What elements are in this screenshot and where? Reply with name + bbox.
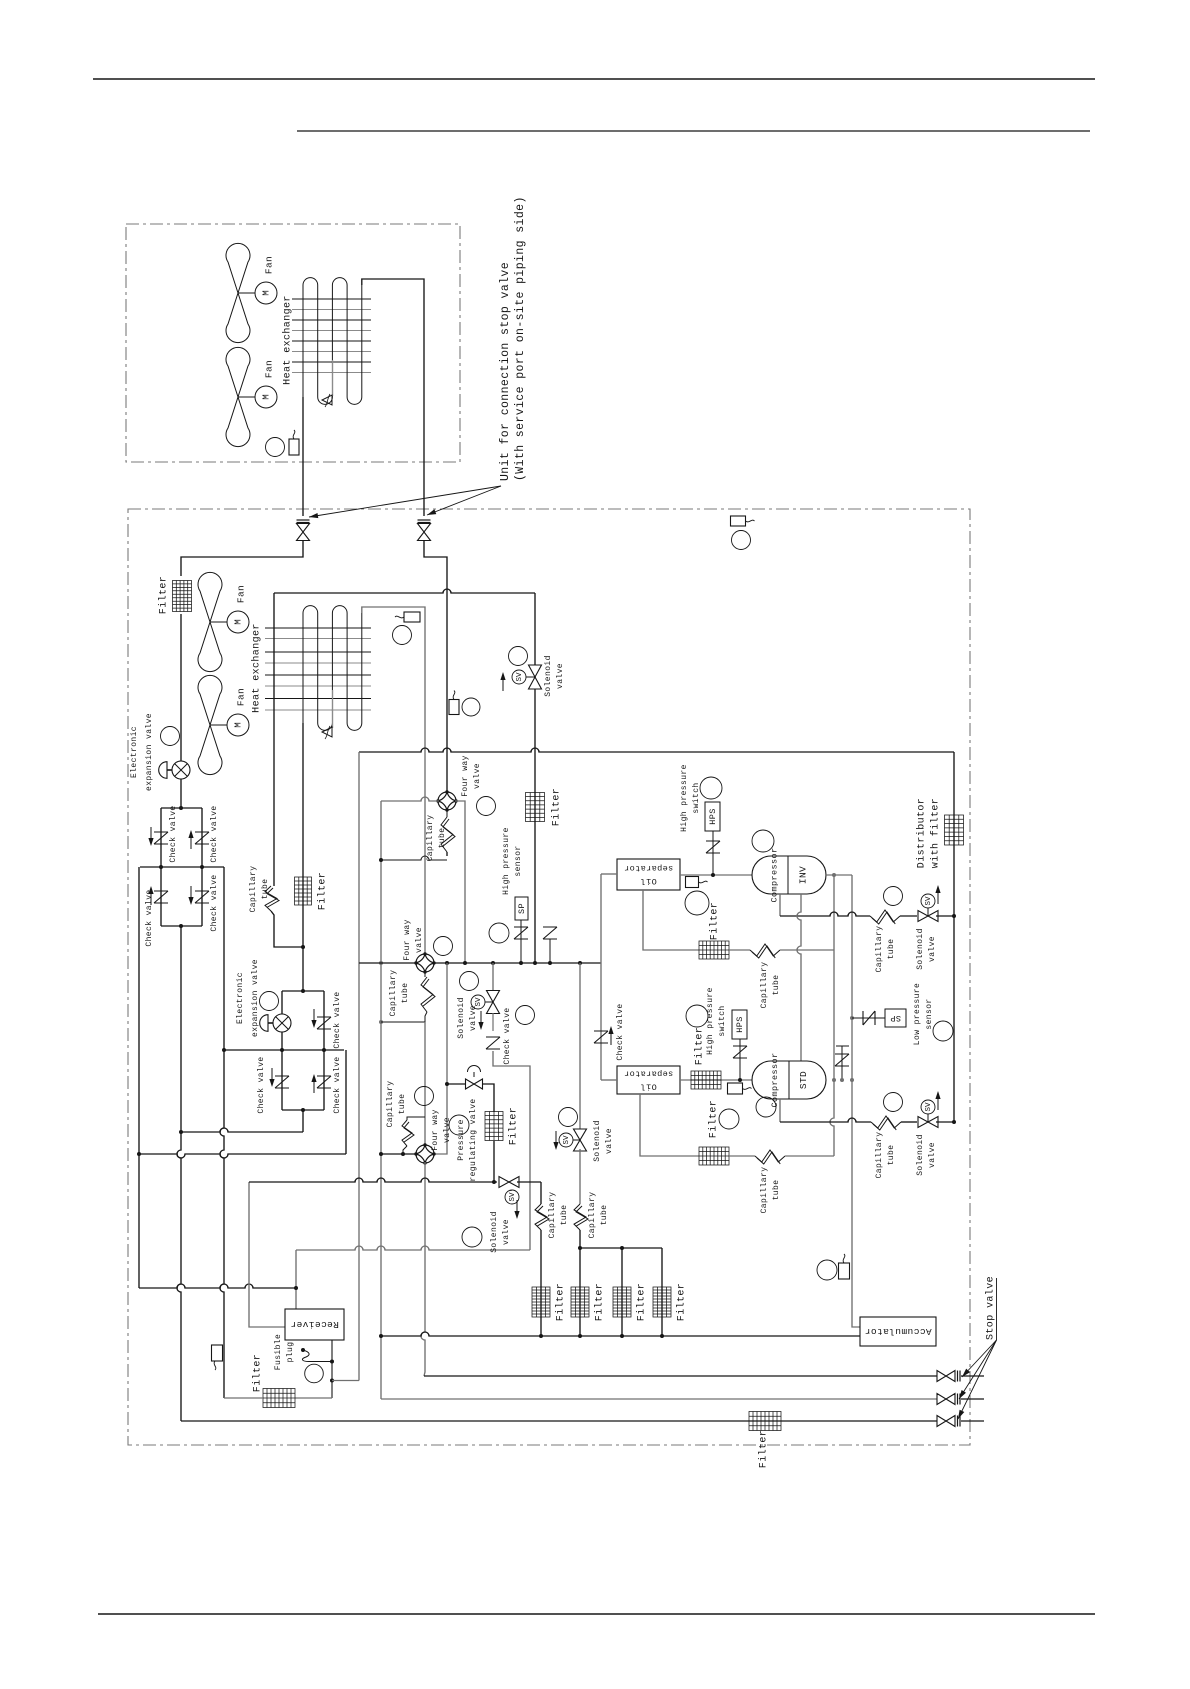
check valve CV6 bbox=[594, 1031, 608, 1043]
wire: stop valve SV-A down to filter F1 / EEV line bbox=[181, 540, 303, 576]
svg-text:M: M bbox=[233, 722, 243, 727]
thermistor (gas pipe) bbox=[449, 700, 459, 715]
svg-text:Solenoid: Solenoid bbox=[457, 997, 466, 1039]
solenoid valve SL4 bbox=[884, 1093, 903, 1112]
svg-text:Fan: Fan bbox=[236, 688, 247, 706]
svg-text:Check valve: Check valve bbox=[257, 1056, 266, 1113]
sensor circle + thermistor (accumulator) bbox=[817, 1260, 837, 1280]
capillary tube CT3 (FW2 pilot) bbox=[424, 971, 426, 977]
filter F5 bbox=[699, 941, 729, 959]
high pressure switch HPS1 bbox=[712, 831, 714, 875]
svg-text:SP: SP bbox=[517, 903, 527, 914]
svg-text:Accumulator: Accumulator bbox=[864, 1326, 931, 1337]
svg-text:tube: tube bbox=[261, 879, 270, 900]
wire: y=1288 bar bbox=[139, 1284, 296, 1288]
svg-text:valve: valve bbox=[556, 663, 565, 689]
svg-text:valve: valve bbox=[928, 936, 937, 962]
svg-text:Check valve: Check valve bbox=[333, 991, 342, 1048]
wire: discharge drop x=852 to accumulator bbox=[852, 875, 860, 1327]
svg-text:Filter: Filter bbox=[708, 1100, 720, 1138]
sensor circle near coil-2 top bbox=[393, 626, 412, 645]
filter F1 bbox=[173, 581, 192, 612]
wire: liquid line y=1421 bbox=[181, 1420, 937, 1422]
wire: x=303 into bridge B2 bbox=[302, 947, 304, 991]
svg-text:High pressure: High pressure bbox=[502, 827, 511, 895]
svg-text:tube: tube bbox=[772, 1180, 781, 1201]
thermistor (receiver area) bbox=[212, 1345, 223, 1361]
thermistor (coil-2 outlet) bbox=[404, 612, 420, 622]
svg-text:(With service port on-site pip: (With service port on-site piping side) bbox=[514, 196, 527, 481]
filter F10 bbox=[263, 1389, 295, 1408]
filter F14 bbox=[653, 1287, 671, 1317]
bridge B1 left branch bbox=[160, 808, 162, 867]
svg-text:Fan: Fan bbox=[264, 360, 275, 378]
pilot circle above EEV E1 bbox=[161, 727, 180, 746]
svg-text:tube: tube bbox=[398, 1094, 407, 1115]
svg-text:valve: valve bbox=[502, 1219, 511, 1245]
pilot circle FW2 bbox=[434, 937, 453, 956]
svg-text:Fan: Fan bbox=[236, 585, 247, 603]
wire: coil-2 inlet pipe down through filter F2 bbox=[302, 723, 304, 947]
relief stub x=842 bbox=[836, 1046, 849, 1080]
fan F2 (connection unit, lower) bbox=[226, 347, 250, 397]
bridge B1 right branch bbox=[201, 808, 203, 867]
svg-text:Fan: Fan bbox=[264, 256, 275, 274]
connection stop valve SV-A (liquid) bbox=[297, 519, 310, 521]
compressor STD bbox=[752, 1061, 826, 1099]
svg-text:Heat exchanger: Heat exchanger bbox=[251, 623, 263, 713]
svg-text:Capillary: Capillary bbox=[588, 1192, 597, 1239]
svg-text:High pressure: High pressure bbox=[680, 764, 689, 832]
compressor INV bbox=[752, 856, 826, 894]
svg-text:HPS: HPS bbox=[708, 808, 718, 825]
svg-text:Solenoid: Solenoid bbox=[916, 928, 925, 970]
svg-text:tube: tube bbox=[772, 975, 781, 996]
wire: left bar y=1154 bbox=[139, 1154, 346, 1158]
thermistor (coil-1 pipe) bbox=[289, 439, 299, 455]
wire: y=1248 filter-bank header bbox=[580, 1247, 662, 1249]
pilot circle PRV bbox=[449, 1115, 469, 1135]
filter F15 bbox=[749, 1412, 781, 1431]
wire: receiver left feed x=249 bbox=[249, 1182, 285, 1327]
capillary tube CT10 bbox=[579, 1149, 581, 1204]
wire: gas line y=1399 bbox=[381, 1398, 937, 1400]
wire: B1 bottom drop to bottom liquid line bbox=[177, 926, 181, 1421]
svg-text:Check valve: Check valve bbox=[145, 889, 154, 946]
top page rule bbox=[93, 78, 1095, 80]
svg-text:Filter: Filter bbox=[551, 788, 563, 826]
svg-text:Filter: Filter bbox=[636, 1283, 648, 1321]
pilot circle FW1 bbox=[477, 797, 496, 816]
four-way valve FW2 bbox=[416, 954, 434, 972]
svg-text:separator: separator bbox=[624, 863, 674, 873]
svg-text:Check valve: Check valve bbox=[616, 1003, 625, 1060]
defrost sensor marker (coil-2) bbox=[332, 690, 334, 728]
svg-text:Filter: Filter bbox=[158, 576, 170, 614]
electronic expansion valve E2 bbox=[260, 992, 279, 1011]
pilot circle compressor INV bbox=[752, 830, 774, 852]
main outdoor unit enclosure (dash-dot box) bbox=[128, 509, 970, 1445]
svg-text:expansion valve: expansion valve bbox=[251, 959, 260, 1037]
svg-text:HPS: HPS bbox=[735, 1016, 745, 1033]
wire: stop valve SV-B down to four-way valve FW1 bbox=[424, 540, 447, 793]
svg-text:Solenoid: Solenoid bbox=[916, 1134, 925, 1176]
wire: coil-2 outlet to four-way valve FW2 bbox=[362, 607, 425, 752]
leader arrows to stop valves bbox=[962, 1340, 997, 1377]
svg-text:tube: tube bbox=[887, 939, 896, 960]
svg-text:Electronic: Electronic bbox=[130, 726, 139, 778]
wire: solenoid SL6 column x=580 bbox=[579, 963, 581, 1131]
check valve CV1 (B1 upper-left) bbox=[154, 832, 168, 844]
wire: B1 mid-bar right drop bbox=[220, 867, 224, 1398]
four-way valve FW3 bbox=[416, 1145, 434, 1163]
svg-text:Capillary: Capillary bbox=[875, 1132, 884, 1179]
svg-text:Capillary: Capillary bbox=[249, 866, 258, 913]
connection stop valve SV-B (gas) bbox=[418, 519, 431, 521]
sensor circle OS1 bbox=[685, 891, 709, 915]
low pressure sensor SP2 bbox=[852, 1017, 885, 1019]
thermistor (ambient, top-right) bbox=[731, 516, 746, 526]
wire: OS2 oil return y=1156 bbox=[640, 1094, 699, 1156]
svg-text:Check valve: Check valve bbox=[210, 805, 219, 862]
capillary tube CT8 (FW3 pilot) bbox=[407, 1117, 425, 1120]
electronic expansion valve E1 bbox=[172, 761, 190, 779]
svg-text:Compressor: Compressor bbox=[769, 847, 779, 902]
oil separator OS1 bbox=[617, 859, 680, 890]
svg-text:INV: INV bbox=[798, 866, 809, 884]
wire: x=425 down from FW2 pilot junction to four-way valve FW3 bbox=[424, 1022, 426, 1146]
svg-text:Pressure: Pressure bbox=[457, 1119, 466, 1161]
svg-text:Electronic: Electronic bbox=[236, 972, 245, 1024]
wire: bus end into separator column x=601 bbox=[600, 874, 602, 1080]
filter F13 bbox=[613, 1287, 631, 1317]
receiver bbox=[285, 1309, 344, 1340]
svg-text:Stop valve: Stop valve bbox=[985, 1276, 997, 1340]
field stop valve SV-E (liquid) bbox=[937, 1416, 955, 1427]
svg-text:tube: tube bbox=[600, 1205, 609, 1226]
capillary tube CT4 bbox=[729, 949, 750, 951]
wire: fusible to drop x=359 bbox=[332, 1380, 359, 1382]
wire: filter F10 branch bbox=[295, 1397, 332, 1399]
svg-text:Oil: Oil bbox=[640, 1081, 657, 1091]
filter F11 bbox=[532, 1287, 550, 1317]
capillary tube CT6 bbox=[729, 1155, 755, 1157]
svg-text:SV: SV bbox=[925, 896, 933, 906]
pilot circle CV5 bbox=[516, 1006, 535, 1025]
wire: stack x=493 from bus down bbox=[492, 963, 494, 991]
svg-text:expansion valve: expansion valve bbox=[145, 713, 154, 791]
wire: hot gas header y=752 (discharge header) bbox=[359, 748, 954, 752]
capillary tube CT2 (FW1 pilot) bbox=[446, 809, 448, 817]
fan F4 (main unit, lower) bbox=[198, 675, 222, 725]
pilot circle SL5 bbox=[462, 1227, 482, 1247]
underline for stop valve note bbox=[996, 1278, 998, 1340]
svg-text:regulating valve: regulating valve bbox=[469, 1098, 478, 1181]
relief stub x=550 bbox=[549, 939, 551, 963]
svg-text:valve: valve bbox=[605, 1128, 614, 1154]
label: note unit for connection stop valve bbox=[499, 196, 527, 481]
bridge B2 branches upper bbox=[281, 991, 283, 1050]
svg-text:Filter: Filter bbox=[594, 1283, 606, 1321]
solenoid valve SL2 bbox=[460, 972, 479, 991]
svg-text:separator: separator bbox=[624, 1068, 674, 1078]
wire: FW3 bottom to hot-gas stop valve line y=1376 bbox=[421, 1162, 425, 1376]
capillary tube CT9 bbox=[540, 1182, 542, 1204]
leader arrows from note to connection stop valves bbox=[309, 486, 501, 517]
svg-text:Filter: Filter bbox=[508, 1107, 520, 1145]
pressure regulating valve PRV bbox=[466, 1079, 483, 1089]
bridge B2 bottom bar bbox=[282, 1109, 324, 1111]
heat exchanger coil (connection unit) bbox=[292, 278, 371, 405]
wire: header drop x=359 to receiver circuit bbox=[358, 752, 360, 1381]
svg-text:M: M bbox=[261, 290, 271, 295]
filter F4 bbox=[526, 793, 545, 822]
svg-text:switch: switch bbox=[718, 1005, 727, 1036]
svg-text:Capillary: Capillary bbox=[386, 1081, 395, 1128]
wire: suction bus y=963 bbox=[359, 962, 601, 964]
accumulator bbox=[860, 1317, 936, 1346]
check valve CV5 bbox=[486, 1037, 500, 1049]
svg-text:Filter: Filter bbox=[676, 1283, 688, 1321]
bridge B1 lower-left branch bbox=[160, 867, 162, 926]
check valve CV2 (B1 upper-right) bbox=[195, 832, 209, 844]
svg-text:Filter: Filter bbox=[252, 1354, 264, 1392]
svg-text:Capillary: Capillary bbox=[760, 1167, 769, 1214]
svg-text:with filter: with filter bbox=[930, 798, 942, 868]
wire: y=1182 line to solenoid SL5 bbox=[249, 1178, 497, 1182]
svg-text:Filter: Filter bbox=[555, 1283, 567, 1321]
wire: stack x=493 to bypass loop bbox=[493, 1051, 530, 1250]
svg-text:Solenoid: Solenoid bbox=[593, 1120, 602, 1162]
sensor circle SP2 bbox=[933, 1021, 953, 1041]
svg-text:SV: SV bbox=[516, 672, 524, 682]
svg-text:valve: valve bbox=[473, 763, 482, 789]
fan F1 (connection unit, upper) bbox=[226, 243, 250, 293]
wire: FW3 left line bbox=[381, 1153, 417, 1155]
sensor circle (ambient) bbox=[732, 531, 751, 550]
svg-text:Check valve: Check valve bbox=[333, 1056, 342, 1113]
svg-text:tube: tube bbox=[560, 1205, 569, 1226]
capillary tube CT5 bbox=[870, 910, 900, 922]
svg-text:Low pressure: Low pressure bbox=[913, 983, 922, 1045]
wire: B1 mid-bar left drop bbox=[138, 867, 140, 1288]
solenoid valve SL6 bbox=[559, 1108, 578, 1127]
capillary tube CT7 bbox=[871, 1116, 901, 1128]
solenoid valve SL1 bbox=[509, 647, 528, 666]
filter F7 bbox=[699, 1147, 729, 1165]
sensor circles STD bbox=[719, 1109, 739, 1129]
wire: riser x=346 bridge to bar bbox=[345, 1050, 347, 1154]
check valve CV8 (B2 lower-left) bbox=[275, 1076, 289, 1088]
connection-unit enclosure (dash-dot box) bbox=[126, 224, 460, 462]
bridge B1 bottom bar bbox=[161, 925, 202, 927]
svg-text:switch: switch bbox=[692, 782, 701, 813]
distributor filter F8 bbox=[945, 815, 964, 845]
svg-text:valve: valve bbox=[928, 1142, 937, 1168]
svg-text:tube: tube bbox=[401, 983, 410, 1004]
svg-text:Filter: Filter bbox=[709, 902, 721, 940]
wire: FW1 right port drop to bus bbox=[455, 801, 465, 963]
filter F6 bbox=[691, 1071, 721, 1089]
heat exchanger coil (main unit) bbox=[265, 606, 371, 731]
svg-text:Capillary: Capillary bbox=[875, 926, 884, 973]
svg-text:Unit for connection stop valve: Unit for connection stop valve bbox=[499, 262, 512, 481]
svg-text:Four way: Four way bbox=[403, 919, 412, 961]
svg-text:valve: valve bbox=[469, 1005, 478, 1031]
svg-text:sensor: sensor bbox=[925, 998, 934, 1029]
solenoid valve SL5 bbox=[499, 1177, 519, 1188]
wire: STD injection line y=1122 bbox=[779, 1099, 781, 1122]
fusible plug bbox=[301, 1348, 305, 1352]
field stop valve SV-D (gas) bbox=[937, 1394, 955, 1405]
check valve CV3 (B1 lower-left) bbox=[154, 891, 168, 903]
svg-text:STD: STD bbox=[798, 1071, 809, 1089]
svg-text:tube: tube bbox=[887, 1145, 896, 1166]
oil separator OS2 bbox=[617, 1066, 680, 1094]
wire: INV discharge to x=852 drop bbox=[826, 874, 852, 876]
svg-text:Fusible: Fusible bbox=[274, 1334, 283, 1370]
wire: OS1 oil return y=950 bbox=[643, 890, 699, 950]
wire: liquid header right edge x=954 bbox=[953, 752, 955, 1122]
svg-text:Check valve: Check valve bbox=[210, 874, 219, 931]
defrost sensor marker (coil-1) bbox=[332, 360, 334, 396]
svg-text:Solenoid: Solenoid bbox=[490, 1211, 499, 1253]
svg-text:Check valve: Check valve bbox=[503, 1007, 512, 1064]
svg-text:Oil: Oil bbox=[640, 876, 657, 886]
thermistor (OS1 outlet) bbox=[686, 877, 699, 888]
svg-text:Compressor: Compressor bbox=[770, 1052, 780, 1107]
filter F12 bbox=[571, 1287, 589, 1317]
wire: branch x=535 from y=593 to bus bbox=[534, 593, 536, 963]
wire: OS1 to INV compressor discharge line bbox=[680, 874, 752, 876]
filter bank F11-F14 bbox=[541, 1248, 662, 1336]
svg-text:valve: valve bbox=[443, 1117, 452, 1143]
suction line into accumulator y=1336 bbox=[381, 1332, 860, 1336]
filter F9 bbox=[485, 1112, 503, 1141]
section heading rule bbox=[297, 130, 1090, 132]
svg-text:M: M bbox=[261, 394, 271, 399]
svg-text:Receiver: Receiver bbox=[290, 1319, 339, 1330]
thermistor (OS2 outlet) bbox=[728, 1083, 743, 1094]
svg-text:M: M bbox=[233, 619, 243, 624]
wire: PRV to filter F9 drop x=494 bbox=[482, 1084, 494, 1112]
high pressure sensor SP1 bbox=[489, 923, 509, 943]
bridge B2 top bar bbox=[282, 990, 324, 992]
thermistor (accumulator inlet) bbox=[839, 1263, 850, 1279]
wire: FW1 left port to suction drop x=381 bbox=[381, 797, 439, 801]
bridge B1 lower-right branch bbox=[201, 867, 203, 926]
filter F2 bbox=[295, 877, 312, 905]
sensor circle + thermistor near gas line bbox=[462, 698, 480, 716]
svg-text:Filter: Filter bbox=[694, 1027, 706, 1065]
svg-text:Solenoid: Solenoid bbox=[544, 655, 553, 697]
wire: hot gas line y=1376 bbox=[424, 1375, 937, 1377]
wire: OS2 to STD compressor line bbox=[680, 1079, 752, 1081]
electronic expansion valve E2 bbox=[273, 1014, 291, 1032]
wire: INV-STD equalizer x=801 bbox=[797, 894, 801, 1061]
field stop valve SV-C (hot gas) bbox=[937, 1371, 955, 1382]
pilot circle FW3 bbox=[415, 1087, 434, 1106]
svg-text:Distributor: Distributor bbox=[916, 798, 928, 868]
bridge B2 mid bar bbox=[224, 1049, 344, 1051]
svg-text:SV: SV bbox=[563, 1135, 571, 1145]
wire: filter F1 to EEV E1 bbox=[180, 614, 182, 761]
svg-text:Filter: Filter bbox=[758, 1430, 770, 1468]
svg-text:Heat exchanger: Heat exchanger bbox=[282, 295, 294, 385]
svg-text:SV: SV bbox=[925, 1102, 933, 1112]
wire: suction drop x=381 bbox=[380, 801, 382, 1399]
svg-text:sensor: sensor bbox=[514, 845, 523, 876]
wire: x=447 bus to PRV junction to FW3 bbox=[446, 963, 448, 1084]
wire: column to OS1 left port bbox=[601, 873, 617, 875]
svg-text:Four way: Four way bbox=[461, 755, 470, 797]
wire: B2 bottom stub bbox=[302, 1110, 304, 1132]
check valve CV4 (B1 lower-right) bbox=[195, 891, 209, 903]
bridge B2 branches lower bbox=[281, 1050, 283, 1110]
svg-text:tube: tube bbox=[438, 828, 447, 849]
wire: INV injection line y=916 bbox=[779, 894, 781, 916]
check valve CV9 (B2 lower-right) bbox=[317, 1076, 331, 1088]
temperature sensor circle (coil-1) bbox=[266, 438, 285, 457]
wire: coil-1 inlet pipe down to stop valve SV1 bbox=[302, 397, 304, 516]
svg-text:SP: SP bbox=[890, 1013, 901, 1023]
wire: coil-1 outlet pipe to stop valve SV2 bbox=[362, 279, 424, 516]
wire: hot-gas branch y=593 bbox=[274, 589, 535, 593]
svg-text:Filter: Filter bbox=[317, 872, 329, 910]
bottom page rule bbox=[98, 1613, 1095, 1615]
svg-text:High pressure: High pressure bbox=[706, 987, 715, 1055]
check valve bridge B1 top bar bbox=[161, 807, 202, 809]
wire: y=1132 bar bbox=[181, 1128, 303, 1132]
svg-text:Capillary: Capillary bbox=[548, 1192, 557, 1239]
svg-text:valve: valve bbox=[415, 927, 424, 953]
wire: oil return x=834 bbox=[830, 875, 834, 1156]
svg-text:plug: plug bbox=[286, 1342, 295, 1363]
check valve CV7 (B2 upper-right) bbox=[317, 1017, 331, 1029]
svg-text:Capillary: Capillary bbox=[389, 970, 398, 1017]
bridge B1 mid bar bbox=[140, 866, 224, 868]
svg-text:Check valve: Check valve bbox=[169, 805, 178, 862]
svg-text:Four way: Four way bbox=[431, 1109, 440, 1151]
fan F3 (main unit, upper) bbox=[198, 572, 222, 622]
high pressure switch HPS2 bbox=[739, 1039, 741, 1080]
svg-text:Capillary: Capillary bbox=[426, 815, 435, 862]
wire: column to OS2 left port bbox=[601, 1079, 617, 1081]
solenoid valve SL3 bbox=[884, 887, 903, 906]
svg-text:SV: SV bbox=[509, 1192, 517, 1202]
wire: EEV E1 to check-valve bridge B1 bbox=[180, 779, 182, 808]
four-way valve FW1 bbox=[438, 792, 456, 810]
svg-text:Capillary: Capillary bbox=[760, 962, 769, 1009]
